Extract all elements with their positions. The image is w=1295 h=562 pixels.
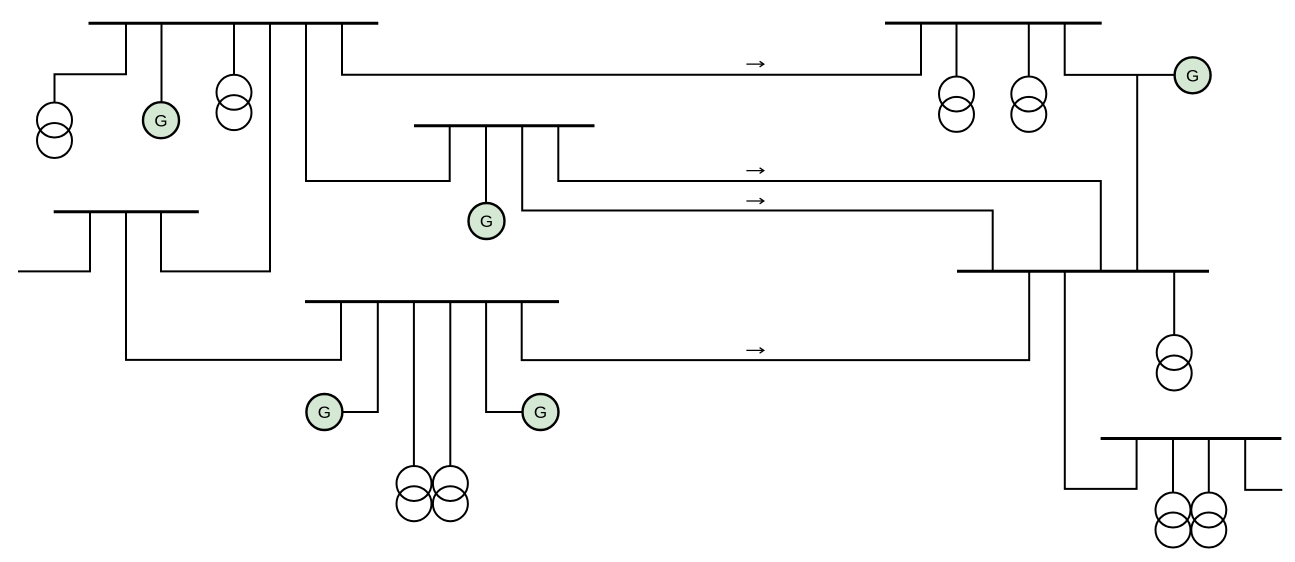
busbar B2 (left-middle) — [54, 210, 199, 213]
line arrow 4 (B4-B6 line) — [746, 348, 763, 354]
transformer T1 — [37, 103, 72, 159]
wire B2 stub to left edge — [18, 212, 90, 272]
wire B4 to generator G5 — [486, 302, 523, 412]
busbar B3 (center) — [414, 124, 595, 127]
wire B4 to B6 (line with arrow) — [522, 271, 1029, 360]
busbar B4 (bottom-middle) — [305, 300, 559, 303]
wire B2 to B4 — [126, 212, 341, 360]
wire B5 to transformer T5a — [956, 23, 958, 76]
generator G2 — [1175, 57, 1211, 93]
wire B7 to transformer T7b — [1208, 439, 1210, 493]
wire junction to B6 — [1136, 75, 1138, 271]
wire B7 to transformer T7a — [1172, 439, 1174, 493]
transformer T5b — [1011, 77, 1046, 132]
wire B3 to B6 (upper line) — [558, 126, 1101, 271]
generator G1 — [143, 102, 179, 138]
transformer T7b — [1191, 493, 1226, 548]
transformer T4b — [433, 466, 468, 521]
svg-text:G: G — [154, 111, 167, 130]
svg-text:G: G — [534, 403, 547, 422]
wire B4 to generator G4 — [342, 302, 378, 412]
wire B1 to transformer T1 — [55, 23, 127, 102]
wire B6 to B7 — [1065, 271, 1137, 489]
transformer T7a — [1156, 493, 1191, 548]
wire B4 to transformer T4b — [449, 302, 451, 466]
wire B1 to generator G1 — [161, 23, 163, 102]
wire B3 to B6 (lower line) — [522, 126, 993, 271]
wire B1 to B2 — [161, 23, 270, 271]
line arrow 2 (upper B3-B6 line) — [746, 168, 763, 174]
generator G4 — [306, 394, 342, 430]
line arrow 1 (B1-B5 line) — [746, 61, 763, 67]
busbar B7 (bottom-right) — [1101, 437, 1282, 440]
busbar B5 (top-right) — [885, 22, 1102, 25]
line arrow 3 (lower B3-B6 line) — [746, 198, 763, 204]
wire B1 to transformer T2 — [233, 23, 235, 75]
wire B5 to generator G2 — [1065, 23, 1175, 75]
svg-text:G: G — [480, 212, 493, 231]
wire B3 to generator G3 — [485, 126, 487, 203]
wire B7 stub to right edge — [1245, 439, 1282, 490]
transformer T5a — [939, 77, 974, 132]
svg-text:G: G — [1186, 66, 1199, 85]
busbar B1 (top-left) — [89, 22, 379, 25]
busbar B6 (right-middle) — [957, 270, 1209, 273]
transformer T2 — [217, 75, 252, 130]
wire B1 to B5 (line with arrow) — [342, 23, 921, 75]
transformer T6 — [1157, 335, 1192, 391]
generator G5 — [523, 394, 559, 430]
generator G3 — [469, 203, 505, 239]
wire B4 to transformer T4a — [413, 302, 415, 466]
svg-text:G: G — [318, 403, 331, 422]
transformer T4a — [397, 466, 432, 521]
wire B6 to transformer T6 — [1173, 271, 1175, 335]
wire B1 to B3 — [306, 23, 450, 181]
wire B5 to transformer T5b — [1028, 23, 1030, 76]
